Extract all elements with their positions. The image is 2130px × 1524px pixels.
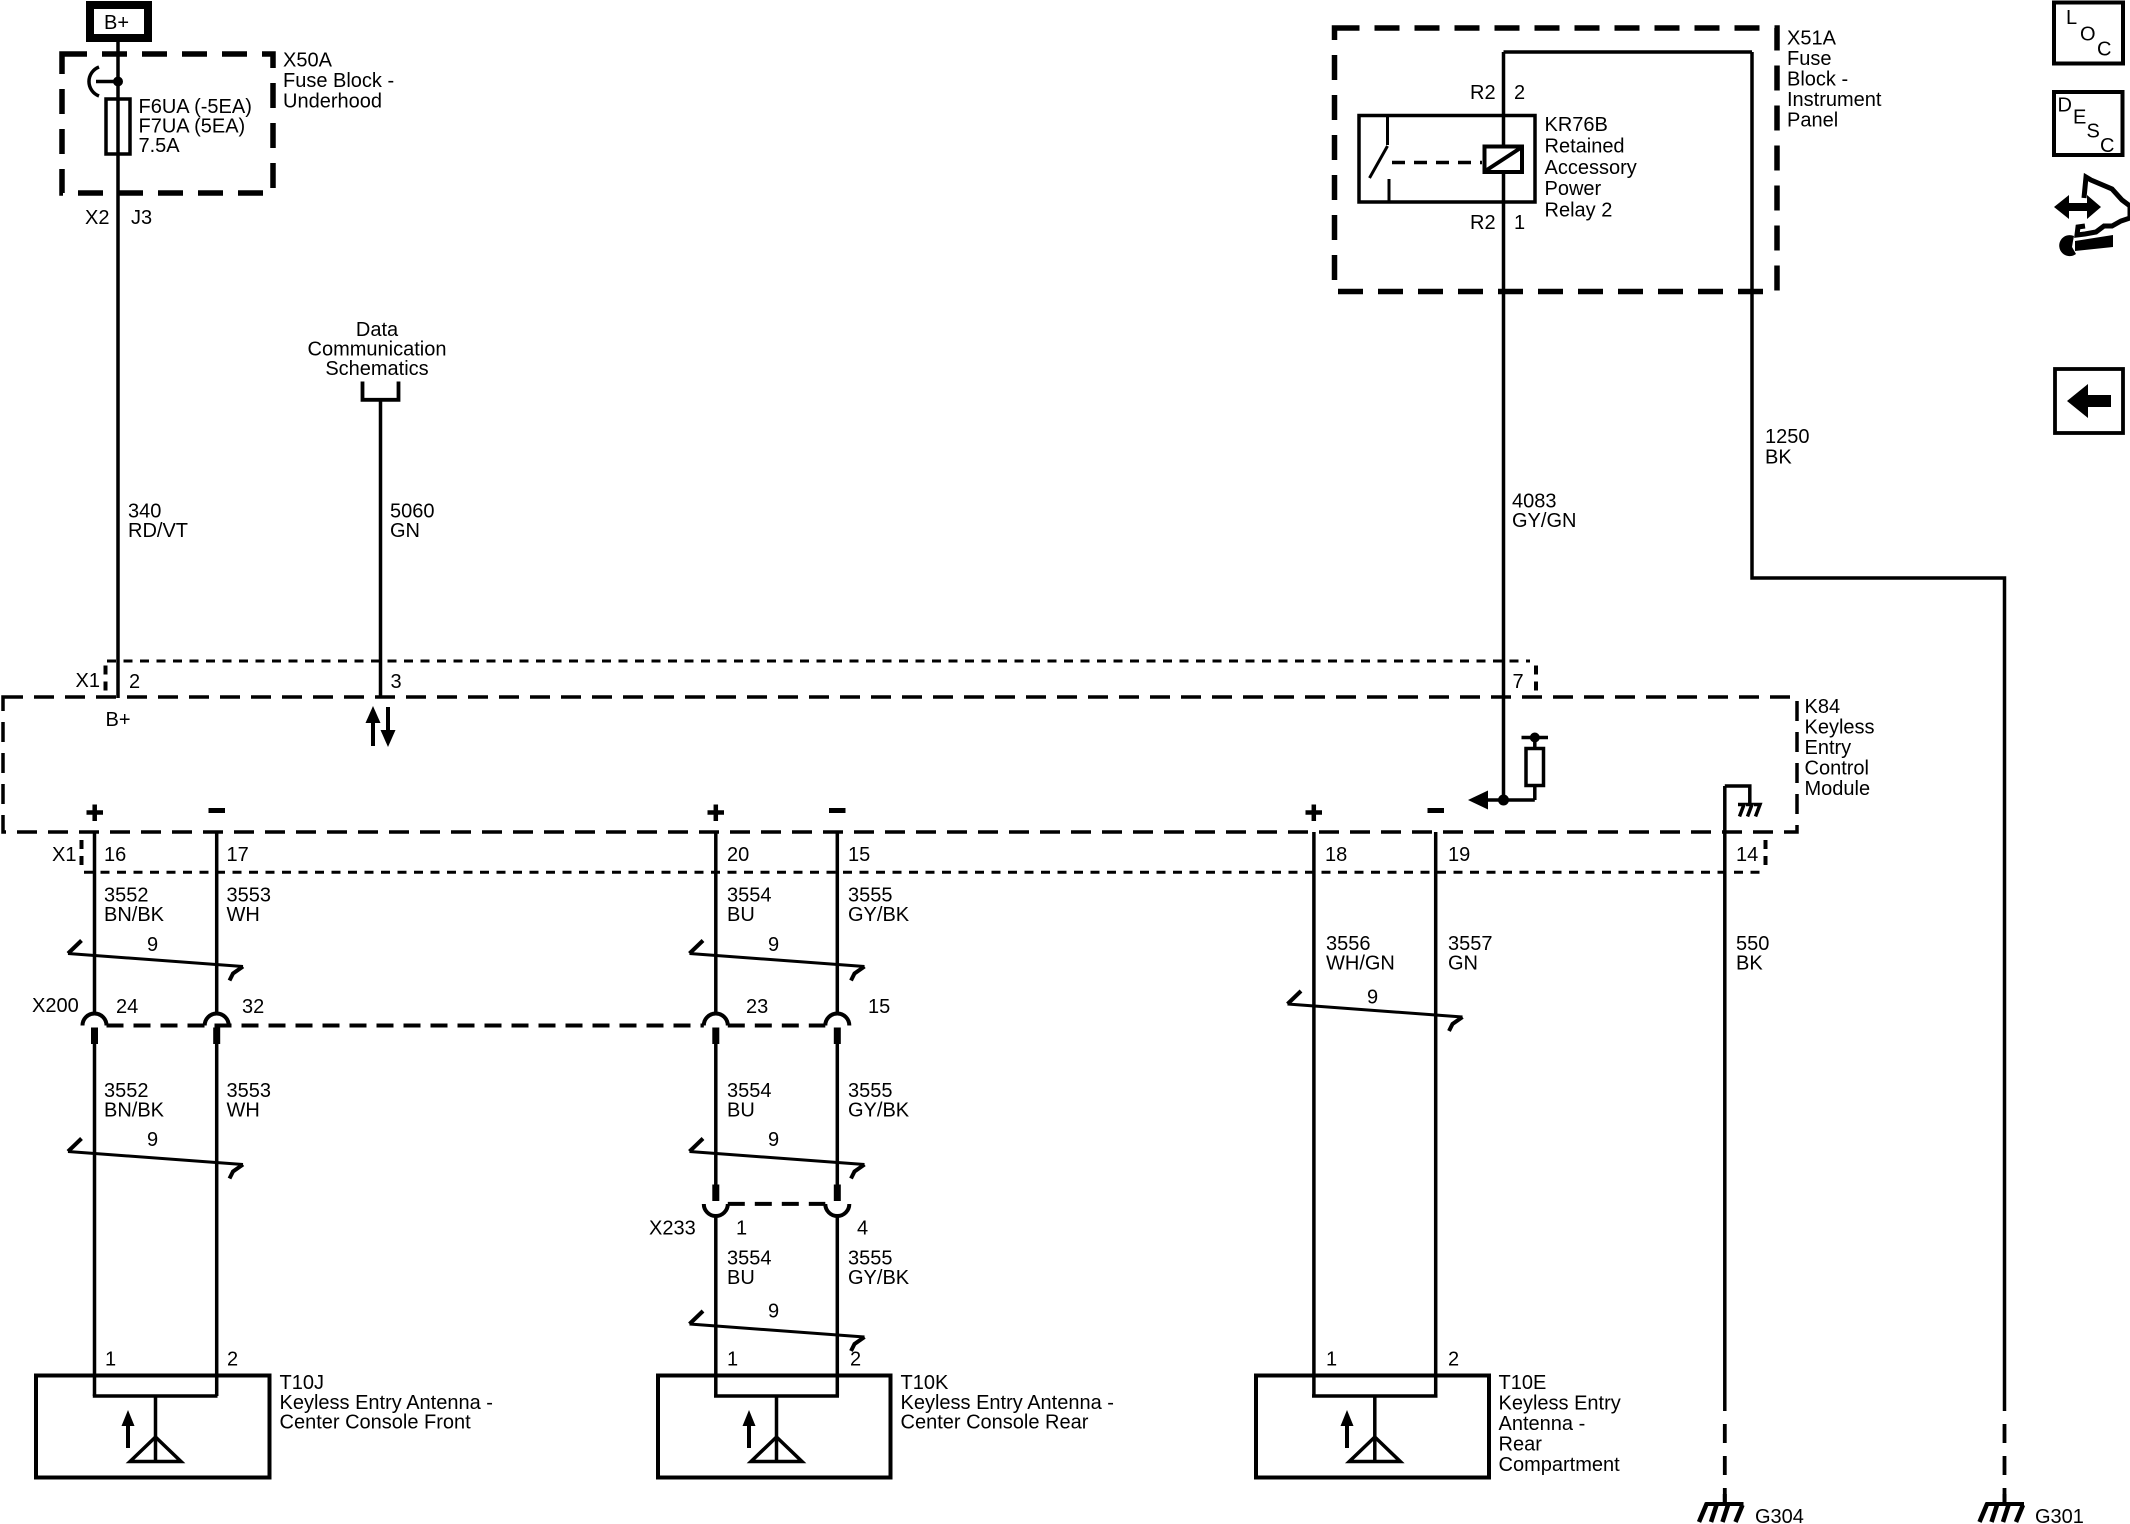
ground G304 symbol [1699,1494,1744,1522]
svg-text:Fuse: Fuse [1787,48,1831,70]
connector X1 lower dotted line [84,871,1764,874]
off-page bracket [363,382,399,400]
tap line [96,80,118,84]
svg-text:BK: BK [1765,447,1792,469]
svg-text:9: 9 [147,934,158,956]
wire label 3552 BN/BK lower [104,1080,165,1122]
svg-text:Schematics: Schematics [325,358,428,380]
ground G301 symbol [1980,1494,2025,1522]
svg-text:C: C [2097,39,2111,61]
svg-text:2: 2 [850,1349,861,1371]
svg-text:Center Console Front: Center Console Front [280,1412,472,1434]
svg-text:2: 2 [1514,82,1525,104]
connector X200 row [32,995,890,1044]
svg-text:2: 2 [129,671,140,693]
junction dot pin 7 node [1498,795,1509,806]
wire 1250 BK run [1752,52,2005,1411]
relay KR76B label [1545,114,1637,222]
wire label 4083 GY/GN [1512,491,1576,533]
svg-text:1: 1 [1514,212,1525,234]
svg-text:R2: R2 [1470,212,1496,234]
wire label 3554 BU upper [727,885,772,927]
module K84 dashed box [3,697,1797,832]
svg-text:Underhood: Underhood [283,91,382,113]
connector X2 pin J3 label [85,207,152,229]
svg-text:D: D [2058,95,2072,117]
svg-text:18: 18 [1325,844,1347,866]
fuse F6UA/F7UA [106,99,130,154]
polarity minus pin 17 [209,808,226,813]
svg-text:2: 2 [1448,1349,1459,1371]
svg-text:GY/GN: GY/GN [1512,510,1576,532]
back arrow icon box [2055,369,2123,433]
relay coil [1485,147,1523,173]
twisted pair symbol middle lower [690,1301,865,1352]
svg-text:WH: WH [227,1100,260,1122]
svg-text:BK: BK [1736,953,1763,975]
wire 5060 GN [379,400,383,698]
wire 3552 lower [93,1044,97,1396]
antenna T10E box [1256,1376,1489,1478]
antenna T10K box [658,1376,891,1478]
relay control dashed link [1392,161,1482,165]
internal chassis ground symbol [1738,805,1760,817]
connector X1 upper dotted line [107,660,1530,663]
svg-text:BN/BK: BN/BK [104,904,165,926]
X51A fuse block label [1787,27,1882,131]
serial data arrows [366,706,396,747]
svg-text:KR76B: KR76B [1545,114,1608,136]
svg-text:Retained: Retained [1545,135,1625,157]
twisted pair symbol left upper [68,934,243,981]
wire label 3553 WH upper [227,885,272,927]
svg-text:Instrument: Instrument [1787,89,1882,111]
relay switch contact [1370,116,1390,203]
polarity plus pin 20 [708,805,725,822]
connector X1 upper right tick [1534,666,1538,693]
module K84 label [1805,696,1875,800]
connector X1 upper left tick [104,666,108,693]
svg-text:GY/BK: GY/BK [848,1100,910,1122]
fuse block X51A dashed box [1335,28,1778,292]
svg-text:X2: X2 [85,207,109,229]
svg-text:RD/VT: RD/VT [128,520,188,542]
wire 3556 (pin 18) [1312,832,1316,1396]
wire top feed to relay pin 2 [1504,50,1753,54]
bus tap hook [89,67,99,96]
svg-text:Fuse Block -: Fuse Block - [283,70,394,92]
wire 3555 lower [836,1217,840,1396]
svg-text:Power: Power [1545,178,1602,200]
twisted pair symbol right [1288,987,1463,1032]
svg-text:S: S [2087,121,2100,143]
svg-text:GY/BK: GY/BK [848,904,910,926]
wire 3555 upper (pin 15) [836,832,840,1015]
svg-text:X233: X233 [649,1218,696,1240]
svg-text:Accessory: Accessory [1545,157,1637,179]
resistor pull-up inside module [1486,733,1548,801]
svg-text:J3: J3 [131,207,152,229]
svg-text:Panel: Panel [1787,109,1838,131]
junction dot [113,77,123,87]
wire label 5060 GN [390,501,435,543]
svg-text:B+: B+ [104,12,129,34]
svg-text:WH/GN: WH/GN [1326,953,1395,975]
svg-text:Rear: Rear [1499,1434,1543,1456]
connector X233 row [649,1185,868,1240]
svg-text:3: 3 [391,671,402,693]
svg-text:Control: Control [1805,758,1869,780]
svg-text:L: L [2066,7,2077,29]
svg-text:Keyless: Keyless [1805,717,1875,739]
diagnostic arrows-wrench icon [2054,177,2130,256]
svg-text:9: 9 [768,934,779,956]
DESC icon box [2054,92,2123,157]
svg-text:X51A: X51A [1787,27,1837,49]
polarity minus pin 19 [1428,808,1445,813]
svg-text:9: 9 [147,1129,158,1151]
svg-text:O: O [2080,24,2096,46]
wire 3553 lower [215,1044,219,1396]
svg-text:T10E: T10E [1499,1372,1547,1394]
svg-text:4: 4 [857,1218,868,1240]
fuse block X50A dashed box [62,54,273,193]
wire 550 BK dashed tail [1723,1411,1727,1502]
wire 1250 BK dashed tail [2003,1411,2007,1502]
LOC icon box [2054,3,2123,64]
svg-text:Relay 2: Relay 2 [1545,200,1613,222]
antenna T10E label [1499,1372,1621,1476]
polarity minus pin 15 [829,808,846,813]
svg-text:24: 24 [116,996,138,1018]
svg-text:1: 1 [736,1218,747,1240]
svg-text:9: 9 [768,1129,779,1151]
svg-text:BU: BU [727,904,755,926]
input arrowhead at pin 7 node [1468,791,1488,810]
wire label 3555 GY/BK middle [848,1080,910,1122]
wire 3554 middle [714,1044,718,1185]
svg-text:14: 14 [1736,844,1758,866]
wire relay pin2 down (4083 circuit) [1502,52,1506,800]
wire B+ to fuse (340 circuit) [116,41,120,698]
wire label 3555 GY/BK upper [848,885,910,927]
twisted pair symbol left lower [68,1129,243,1179]
wire 550 BK (pin 14) [1723,832,1727,1411]
svg-text:WH: WH [227,904,260,926]
relay pin R2 1 label [1470,212,1525,234]
twisted pair symbol middle mid [690,1129,865,1179]
relay pin R2 2 label [1470,82,1525,104]
wire 3554 upper (pin 20) [714,832,718,1015]
wire label 3554 BU lower [727,1248,772,1290]
svg-text:X1: X1 [76,670,100,692]
svg-text:9: 9 [1367,987,1378,1009]
svg-text:Center Console Rear: Center Console Rear [901,1412,1089,1434]
polarity plus pin 16 [87,805,104,822]
relay KR76B box [1359,116,1535,203]
fuse value label [139,96,252,157]
wire label 3554 BU middle [727,1080,772,1122]
wire label 1250 BK [1765,426,1810,469]
svg-text:2: 2 [227,1349,238,1371]
svg-text:7.5A: 7.5A [139,135,181,157]
svg-text:1250: 1250 [1765,426,1810,448]
svg-text:X50A: X50A [283,50,333,72]
svg-text:BU: BU [727,1267,755,1289]
wire 3553 upper (pin 17) [215,832,219,1015]
svg-text:Compartment: Compartment [1499,1454,1621,1476]
svg-text:1: 1 [105,1349,116,1371]
svg-text:K84: K84 [1805,696,1841,718]
svg-text:X200: X200 [32,995,79,1017]
antenna T10K label [901,1372,1114,1434]
svg-text:Block -: Block - [1787,68,1848,90]
svg-text:BU: BU [727,1100,755,1122]
wire label 3555 GY/BK lower [848,1248,910,1290]
wire label 3552 BN/BK upper [104,885,165,927]
svg-text:17: 17 [227,844,249,866]
svg-text:19: 19 [1448,844,1470,866]
svg-text:Module: Module [1805,778,1871,800]
wire label 3553 WH lower [227,1080,272,1122]
polarity plus pin 18 [1306,805,1323,822]
X50A fuse block label [283,50,394,113]
svg-text:1: 1 [1326,1349,1337,1371]
connector X1 lower left tick [80,840,84,866]
svg-text:15: 15 [848,844,870,866]
internal ground hook [1725,786,1750,832]
svg-text:Antenna -: Antenna - [1499,1413,1586,1435]
svg-text:C: C [2100,135,2114,157]
svg-text:E: E [2073,107,2086,129]
wire label 340 RD/VT [128,501,188,543]
svg-text:X1: X1 [52,844,76,866]
svg-text:32: 32 [242,996,264,1018]
connector X1 lower right tick [1764,840,1768,866]
svg-text:15: 15 [868,996,890,1018]
svg-text:Entry: Entry [1805,737,1852,759]
svg-text:20: 20 [727,844,749,866]
wire 3555 middle [836,1044,840,1185]
wire label 3557 GN [1448,933,1493,975]
svg-text:B+: B+ [106,709,131,731]
B+ power symbol [90,5,148,38]
svg-text:16: 16 [104,844,126,866]
wire 3552 upper (pin 16) [93,832,97,1015]
svg-text:7: 7 [1513,671,1524,693]
wire 3554 lower [714,1217,718,1396]
svg-text:GN: GN [390,520,420,542]
antenna T10J label [280,1372,493,1434]
wire label 550 BK [1736,933,1769,975]
svg-text:Keyless Entry: Keyless Entry [1499,1393,1621,1415]
off-page reference Data Communication Schematics [308,319,447,380]
wire 3557 (pin 19) [1434,832,1438,1396]
svg-text:1: 1 [727,1349,738,1371]
antenna T10J box [36,1376,270,1478]
svg-text:T10J: T10J [280,1372,324,1394]
svg-text:GN: GN [1448,953,1478,975]
svg-text:9: 9 [768,1301,779,1323]
svg-text:23: 23 [746,996,768,1018]
svg-text:GY/BK: GY/BK [848,1267,910,1289]
twisted pair symbol middle upper [690,934,865,981]
svg-text:R2: R2 [1470,82,1496,104]
svg-text:G301: G301 [2035,1506,2084,1524]
wire label 3556 WH/GN [1326,933,1395,975]
svg-text:T10K: T10K [901,1372,949,1394]
svg-text:G304: G304 [1755,1506,1804,1524]
svg-text:BN/BK: BN/BK [104,1100,165,1122]
